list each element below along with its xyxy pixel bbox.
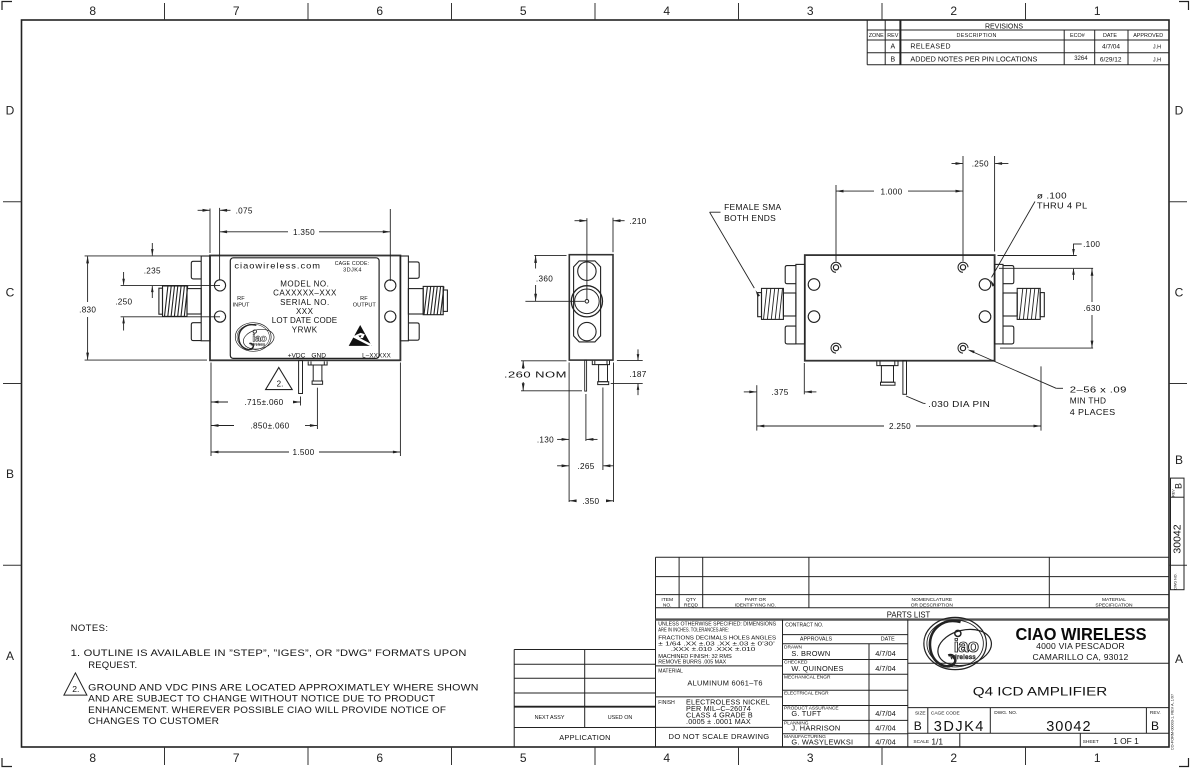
side strip dwg no box xyxy=(1171,478,1185,590)
front view body outline xyxy=(210,256,400,361)
svg-text:J.H: J.H xyxy=(1153,44,1161,50)
dimension .100 xyxy=(998,244,1094,280)
svg-text:8: 8 xyxy=(89,751,96,765)
svg-text:.210: .210 xyxy=(629,217,646,226)
dimension 1.350 xyxy=(220,209,391,281)
svg-text:.075: .075 xyxy=(236,206,253,215)
svg-text:1/1: 1/1 xyxy=(931,736,943,746)
svg-text:30042: 30042 xyxy=(1046,719,1091,735)
svg-text:.265: .265 xyxy=(577,462,594,471)
svg-text:5: 5 xyxy=(520,751,527,765)
svg-text:.850±.060: .850±.060 xyxy=(250,422,289,431)
svg-text:REV: REV xyxy=(1172,489,1176,497)
svg-text:.630: .630 xyxy=(1083,304,1100,313)
top view right SMA connector xyxy=(995,264,1045,344)
svg-text:MIN THD: MIN THD xyxy=(1070,397,1107,406)
svg-text:5: 5 xyxy=(520,4,527,18)
left SMA connector threaded barrel xyxy=(159,286,188,316)
top view thru hole lower-right xyxy=(979,311,991,323)
top view threaded hole top-left xyxy=(831,262,841,272)
svg-text:ADDED NOTES PER PIN LOCATI: ADDED NOTES PER PIN LOCATIONS xyxy=(910,57,1037,64)
revisions table headers xyxy=(869,33,1164,39)
title block tolerance section grid xyxy=(656,620,783,747)
svg-text:wireless: wireless xyxy=(250,343,265,347)
svg-text:DESCRIPTION: DESCRIPTION xyxy=(957,33,997,39)
zone numbers bottom xyxy=(89,751,1100,765)
svg-text:NEXT ASSY: NEXT ASSY xyxy=(535,715,565,721)
svg-text:NO.: NO. xyxy=(663,603,672,609)
svg-text:OUTPUT: OUTPUT xyxy=(353,303,377,309)
svg-text:6/29/12: 6/29/12 xyxy=(1100,56,1122,63)
svg-text:REV: REV xyxy=(887,33,898,39)
dimension .130 xyxy=(557,363,597,503)
svg-text:A: A xyxy=(890,44,895,51)
svg-text:YRWK: YRWK xyxy=(292,325,318,334)
svg-text:LOT DATE CODE: LOT DATE CODE xyxy=(272,316,338,325)
svg-text:APPLICATION: APPLICATION xyxy=(559,733,611,742)
svg-text:B: B xyxy=(1151,719,1159,733)
svg-text:DO NOT SCALE DRAWING: DO NOT SCALE DRAWING xyxy=(669,732,770,741)
parts list grid xyxy=(656,557,1170,747)
top view thru hole upper-left xyxy=(808,279,820,291)
end view connector flange octagon xyxy=(574,261,601,342)
ESD warning symbol xyxy=(349,325,372,346)
svg-text:MATERIAL: MATERIAL xyxy=(1102,597,1126,603)
right SMA connector flange xyxy=(400,256,423,341)
svg-text:B: B xyxy=(1175,453,1183,467)
svg-text:.350: .350 xyxy=(582,497,599,506)
svg-text:1: 1 xyxy=(1094,4,1101,18)
svg-text:.250: .250 xyxy=(972,160,989,169)
svg-text:B: B xyxy=(890,57,895,64)
svg-text:4: 4 xyxy=(663,4,670,18)
svg-text:RF: RF xyxy=(237,296,245,302)
svg-text:.XXX ±.010 .XXX ±.010: .XXX ±.010 .XXX ±.010 xyxy=(671,647,756,653)
svg-text:4: 4 xyxy=(663,751,670,765)
svg-text:3: 3 xyxy=(807,4,814,18)
front view +VDC pin xyxy=(299,360,303,393)
svg-text:IDENTIFYING NO.: IDENTIFYING NO. xyxy=(735,603,776,609)
svg-text:B: B xyxy=(6,467,14,481)
svg-text:CAGE CODE:: CAGE CODE: xyxy=(335,261,370,267)
svg-text:RF: RF xyxy=(360,296,368,302)
dimension .350 xyxy=(569,363,613,503)
svg-text:4/7/04: 4/7/04 xyxy=(875,664,896,673)
svg-text:.030 DIA PIN: .030 DIA PIN xyxy=(928,400,990,409)
svg-text:GND: GND xyxy=(311,353,326,360)
svg-text:GROUND AND VDC PINS ARE L: GROUND AND VDC PINS ARE LOCATED APPROXIM… xyxy=(88,683,479,694)
svg-text:D: D xyxy=(6,104,15,118)
svg-text:3DJK4: 3DJK4 xyxy=(343,268,362,274)
svg-text:CAXXXXX–XXX: CAXXXXX–XXX xyxy=(273,289,337,298)
svg-text:30042: 30042 xyxy=(1172,524,1184,553)
svg-text:.360: .360 xyxy=(536,274,553,283)
svg-text:2.: 2. xyxy=(277,379,284,388)
svg-text:3DJK4: 3DJK4 xyxy=(934,719,985,735)
leader to thru hole xyxy=(992,202,1036,278)
label 2-56 thread callout xyxy=(970,351,1057,389)
svg-text:ELECTRICAL ENGR: ELECTRICAL ENGR xyxy=(784,690,829,696)
svg-text:ZONE: ZONE xyxy=(869,33,884,39)
svg-text:iao: iao xyxy=(954,635,979,656)
svg-text:SERIAL NO.: SERIAL NO. xyxy=(280,298,330,307)
parts list headers xyxy=(661,597,1133,609)
top view .030 pin xyxy=(903,361,907,395)
zone letters left xyxy=(6,104,15,664)
svg-text:SCALE: SCALE xyxy=(913,739,929,745)
top view body outline xyxy=(805,255,995,361)
svg-text:2–56 x .09: 2–56 x .09 xyxy=(1070,385,1127,394)
svg-text:C: C xyxy=(1175,286,1184,300)
svg-text:PART OR: PART OR xyxy=(745,597,767,603)
front view GND pin xyxy=(308,361,327,384)
svg-text:B: B xyxy=(914,719,922,733)
svg-text:G. TUFT: G. TUFT xyxy=(791,709,821,718)
svg-text:MATERIAL: MATERIAL xyxy=(658,669,683,675)
svg-text:2.250: 2.250 xyxy=(889,422,911,431)
svg-text:REQUEST.: REQUEST. xyxy=(88,660,137,671)
zone letters right xyxy=(1175,104,1184,667)
front view mounting hole bottom-left xyxy=(214,311,225,322)
application block grid xyxy=(514,650,655,748)
dimension .850 xyxy=(211,388,317,429)
zone numbers top xyxy=(89,4,1100,18)
svg-text:MODEL NO.: MODEL NO. xyxy=(280,279,329,288)
svg-text:DATE: DATE xyxy=(1103,33,1117,39)
svg-text:.250: .250 xyxy=(115,297,132,306)
top view thru hole lower-left xyxy=(808,311,820,323)
svg-text:.100: .100 xyxy=(1083,240,1100,249)
svg-text:FINISH: FINISH xyxy=(658,700,675,706)
svg-text:QTY: QTY xyxy=(686,597,697,603)
title block right grid xyxy=(908,663,1169,747)
ciao logo on label xyxy=(235,323,276,352)
top view threaded hole top-right xyxy=(958,262,968,272)
top view threaded hole bottom-left xyxy=(831,343,841,353)
tolerance notes text xyxy=(658,622,777,707)
svg-text:FEMALE SMA: FEMALE SMA xyxy=(724,203,782,212)
dimension .260 NOM xyxy=(521,361,582,391)
svg-text:W. QUINONES: W. QUINONES xyxy=(791,664,843,673)
svg-text:REVISIONS: REVISIONS xyxy=(985,24,1023,31)
svg-text:APPROVED: APPROVED xyxy=(1133,33,1163,39)
dimension 1.500 xyxy=(211,363,400,457)
svg-text:6: 6 xyxy=(376,751,383,765)
svg-text:CHANGES TO CUSTOMER: CHANGES TO CUSTOMER xyxy=(88,716,219,727)
svg-text:ø .100: ø .100 xyxy=(1037,191,1067,200)
svg-text:REV.: REV. xyxy=(1150,710,1161,716)
svg-text:1. OUTLINE IS AVAILABLE IN: 1. OUTLINE IS AVAILABLE IN ”STEP”, ”IGES… xyxy=(71,648,467,659)
svg-text:1.500: 1.500 xyxy=(293,448,315,457)
svg-text:.130: .130 xyxy=(537,436,554,445)
svg-text:S. BROWN: S. BROWN xyxy=(791,649,830,658)
end view VDC pin xyxy=(585,360,587,391)
front view mounting hole top-right xyxy=(385,280,396,291)
revision row A xyxy=(890,43,1161,50)
svg-text:7: 7 xyxy=(233,751,240,765)
svg-text:ECO#: ECO# xyxy=(1070,33,1085,39)
svg-text:THRU 4 PL: THRU 4 PL xyxy=(1037,202,1088,211)
svg-text:BOTH ENDS: BOTH ENDS xyxy=(724,214,776,223)
svg-text:Q4 ICD AMPLIFIER: Q4 ICD AMPLIFIER xyxy=(973,686,1108,698)
svg-text:SHEET: SHEET xyxy=(1083,739,1099,745)
svg-text:SPECIFICATION: SPECIFICATION xyxy=(1095,603,1133,609)
svg-text:4/7/04: 4/7/04 xyxy=(1102,43,1120,50)
svg-text:1: 1 xyxy=(1094,751,1101,765)
svg-text:ENHANCEMENT. WHEREVER POSSIB: ENHANCEMENT. WHEREVER POSSIBLE CIAO WILL… xyxy=(88,705,446,716)
svg-text:.235: .235 xyxy=(144,266,161,275)
dimension .360 xyxy=(525,255,584,301)
end view SMA outer circle xyxy=(571,286,602,317)
svg-text:REQD: REQD xyxy=(684,603,699,609)
svg-text:4000 VIA PESCADOR: 4000 VIA PESCADOR xyxy=(1036,642,1125,651)
dimension .250 xyxy=(952,156,1009,252)
svg-text:4/7/04: 4/7/04 xyxy=(875,649,896,658)
svg-text:CIAO WIRELESS: CIAO WIRELESS xyxy=(1016,624,1147,644)
svg-text:MECHANICAL ENGR: MECHANICAL ENGR xyxy=(784,674,831,680)
svg-text:+VDC: +VDC xyxy=(288,353,306,360)
svg-text:NOTES:: NOTES: xyxy=(71,623,109,634)
svg-text:NOMENCLATURE: NOMENCLATURE xyxy=(911,597,952,603)
dimension .187 xyxy=(611,349,643,395)
svg-text:7: 7 xyxy=(233,4,240,18)
dimension .715 xyxy=(211,363,301,457)
svg-text:3: 3 xyxy=(807,751,814,765)
label .030 DIA PIN xyxy=(906,396,924,403)
end view SMA inner circle xyxy=(575,289,600,314)
svg-text:1.350: 1.350 xyxy=(293,228,315,237)
right SMA connector threaded barrel xyxy=(423,286,447,314)
revisions table grid xyxy=(867,20,1169,65)
finish text xyxy=(686,698,770,726)
svg-text:4/7/04: 4/7/04 xyxy=(875,738,896,747)
approvals rows xyxy=(784,645,896,747)
svg-text:4/7/04: 4/7/04 xyxy=(875,724,896,733)
svg-text:B: B xyxy=(1174,483,1184,489)
svg-text:CAMARILLO CA, 93012: CAMARILLO CA, 93012 xyxy=(1033,653,1129,662)
svg-text:.0005 ± .0001 MAX: .0005 ± .0001 MAX xyxy=(686,717,751,726)
svg-text:A: A xyxy=(6,649,14,663)
svg-text:C: C xyxy=(6,286,15,300)
svg-text:.187: .187 xyxy=(629,370,646,379)
end view centerline xyxy=(586,218,588,299)
note flag triangle 2 xyxy=(266,368,293,390)
label text model/serial block xyxy=(272,279,338,334)
dimension .210 xyxy=(575,218,625,253)
note 2 flag triangle xyxy=(64,673,87,695)
svg-text:8: 8 xyxy=(89,4,96,18)
top view GND pin xyxy=(877,361,898,386)
svg-text:L–XXXXX: L–XXXXX xyxy=(362,352,391,359)
svg-text:2: 2 xyxy=(950,4,957,18)
svg-text:G. WASYLEWKSI: G. WASYLEWKSI xyxy=(791,738,853,747)
svg-text:OR DESCRIPTION: OR DESCRIPTION xyxy=(911,603,954,609)
end view top screw circle xyxy=(578,262,596,280)
svg-text:4 PLACES: 4 PLACES xyxy=(1070,408,1116,417)
svg-text:CONTRACT NO.: CONTRACT NO. xyxy=(785,623,823,629)
svg-text:ciaowireless.com: ciaowireless.com xyxy=(234,260,321,270)
dimension .375 xyxy=(744,363,817,431)
svg-text:.375: .375 xyxy=(771,388,788,397)
svg-text:2.: 2. xyxy=(72,684,79,694)
svg-text:REMOVE BURRS .005 MAX: REMOVE BURRS .005 MAX xyxy=(658,659,727,665)
dimension .830 xyxy=(85,256,207,360)
svg-text:CAGE CODE: CAGE CODE xyxy=(931,711,960,717)
revision row B xyxy=(890,56,1161,64)
svg-text:.830: .830 xyxy=(79,306,96,315)
svg-text:1 OF 1: 1 OF 1 xyxy=(1113,736,1139,746)
dimension .075 xyxy=(198,208,231,280)
end view SMA center pin xyxy=(585,300,589,304)
svg-text:DWG. NO.: DWG. NO. xyxy=(994,710,1017,716)
svg-text:INPUT: INPUT xyxy=(233,303,250,309)
svg-text:ALUMINUM 6061–T6: ALUMINUM 6061–T6 xyxy=(687,678,762,687)
company logo xyxy=(924,617,995,671)
top view left SMA connector xyxy=(758,264,805,344)
svg-text:3264: 3264 xyxy=(1074,56,1088,62)
top view thru hole upper-right xyxy=(979,279,991,291)
svg-text:USED ON: USED ON xyxy=(608,715,633,721)
svg-text:DWG NO.: DWG NO. xyxy=(1174,573,1178,589)
svg-text:CO-FORM-00003-1, REV A, 1/9: CO-FORM-00003-1, REV A, 1/97 xyxy=(1171,694,1175,750)
svg-text:2: 2 xyxy=(950,751,957,765)
svg-text:6: 6 xyxy=(376,4,383,18)
svg-text:AND ARE SUBJECT TO CHANGE: AND ARE SUBJECT TO CHANGE WITHOUT NOTICE… xyxy=(88,694,435,705)
svg-text:.260 NOM: .260 NOM xyxy=(504,370,567,379)
approvals section grid xyxy=(783,620,908,747)
dimension .265 xyxy=(557,388,613,471)
svg-text:XXX: XXX xyxy=(296,307,314,316)
svg-text:ARE IN INCHES. TOLERANCES ARE: ARE IN INCHES. TOLERANCES ARE: xyxy=(658,627,729,633)
svg-text:RELEASED: RELEASED xyxy=(910,44,951,51)
svg-text:4/7/04: 4/7/04 xyxy=(875,709,896,718)
svg-text:PARTS LIST: PARTS LIST xyxy=(887,610,931,620)
left SMA connector flange xyxy=(187,256,210,341)
end view bottom screw circle xyxy=(578,322,596,340)
svg-text:DATE: DATE xyxy=(881,636,895,642)
svg-text:D: D xyxy=(1175,104,1184,118)
end view body outline xyxy=(569,255,613,360)
svg-text:A: A xyxy=(1175,652,1183,666)
front view label plate xyxy=(230,258,379,359)
front view mounting hole bottom-right xyxy=(385,311,396,322)
end view GND pin xyxy=(592,361,609,385)
svg-text:wireless: wireless xyxy=(949,654,975,661)
svg-text:J.H: J.H xyxy=(1153,57,1161,63)
dimension 2.250 xyxy=(757,366,1041,430)
dimension .630 xyxy=(1000,268,1093,348)
dimension .250 hole spacing xyxy=(121,272,220,331)
top view threaded hole bottom-right xyxy=(958,343,968,353)
svg-text:1.000: 1.000 xyxy=(881,187,903,196)
dimension .235 xyxy=(121,243,220,298)
svg-text:ITEM: ITEM xyxy=(661,597,673,603)
svg-text:APPROVALS: APPROVALS xyxy=(800,636,833,642)
svg-text:J. HARRISON: J. HARRISON xyxy=(791,724,840,733)
svg-text:.715±.060: .715±.060 xyxy=(244,398,283,407)
front view mounting hole top-left xyxy=(214,280,225,291)
dimension 1.000 xyxy=(836,156,963,262)
svg-text:SIZE: SIZE xyxy=(915,711,926,717)
